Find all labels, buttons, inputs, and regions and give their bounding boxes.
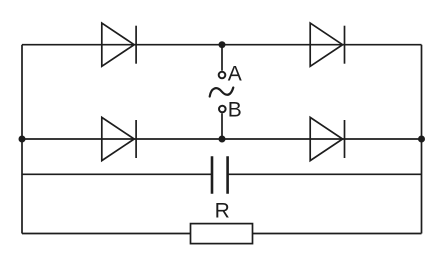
svg-text:B: B — [228, 98, 242, 121]
svg-text:A: A — [228, 63, 242, 86]
svg-text:R: R — [215, 200, 230, 223]
